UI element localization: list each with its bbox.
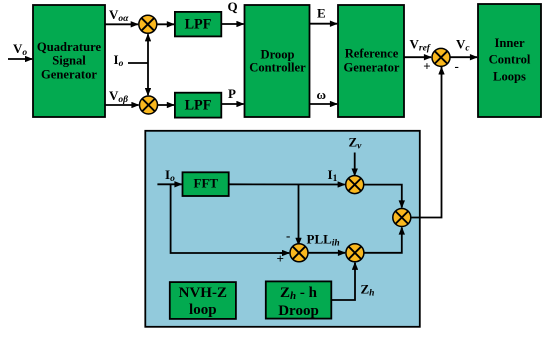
svg-text:Loops: Loops	[493, 69, 526, 83]
svg-text:Zh - h: Zh - h	[280, 285, 318, 302]
svg-text:loop: loop	[189, 302, 217, 318]
svg-text:-: -	[455, 59, 459, 74]
svg-text:P: P	[228, 86, 236, 101]
svg-text:Generator: Generator	[41, 67, 97, 81]
svg-text:NVH-Z: NVH-Z	[179, 285, 227, 301]
svg-text:+: +	[277, 251, 284, 266]
svg-text:Droop: Droop	[278, 303, 319, 319]
svg-text:Control: Control	[489, 53, 531, 67]
svg-text:E: E	[317, 6, 326, 21]
svg-text:ω: ω	[317, 87, 327, 102]
svg-text:Controller: Controller	[249, 61, 306, 75]
svg-text:+: +	[423, 59, 430, 74]
svg-text:Signal: Signal	[52, 54, 86, 68]
svg-text:Generator: Generator	[344, 60, 400, 74]
svg-text:FFT: FFT	[194, 176, 219, 191]
svg-text:LPF: LPF	[185, 97, 212, 113]
svg-text:Q: Q	[228, 0, 238, 14]
svg-text:-: -	[286, 228, 290, 243]
svg-text:Inner: Inner	[494, 36, 524, 50]
svg-text:LPF: LPF	[185, 16, 212, 32]
svg-text:Droop: Droop	[260, 47, 294, 61]
svg-text:Reference: Reference	[345, 46, 399, 60]
svg-text:Quadrature: Quadrature	[37, 40, 102, 54]
